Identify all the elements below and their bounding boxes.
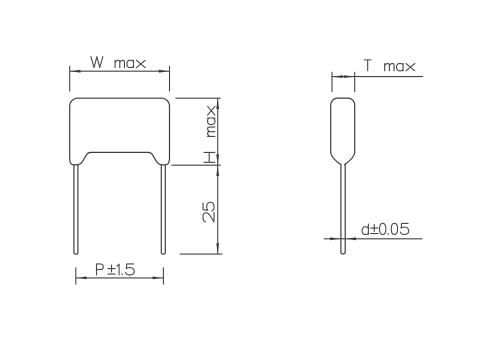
W dimension arrow left (70, 70, 81, 73)
P dimension extension line right (162, 267, 164, 284)
P dimension line (76, 277, 164, 279)
capacitor body (side view) (331, 98, 355, 165)
P dimension arrow right (153, 277, 164, 280)
25 dimension arrow top (216, 165, 219, 176)
right lead (161, 165, 165, 254)
T dimension extension line left (331, 72, 333, 92)
T dimension arrow right (344, 75, 355, 78)
25 dimension arrow bottom (216, 243, 219, 254)
left lead (74, 165, 78, 254)
label "T max" (364, 60, 414, 71)
T dimension line (332, 76, 423, 78)
P dimension arrow left (76, 277, 87, 280)
label "25" (rotated) (203, 202, 214, 222)
25 dimension extension line bottom (180, 253, 223, 255)
H dimension arrow top (216, 98, 219, 109)
H dimension extension line top (176, 97, 221, 99)
capacitor body (front view) (70, 98, 170, 165)
W dimension arrow right (159, 70, 170, 73)
label "P±1.5" (97, 264, 135, 275)
H dimension line (217, 98, 219, 165)
d dimension arrow right (345, 237, 356, 240)
label "d±0.05" (362, 223, 409, 234)
P dimension extension line left (75, 267, 77, 284)
d dimension line (324, 238, 423, 240)
H dimension extension line bottom (171, 164, 220, 166)
side view lead (341, 164, 345, 254)
W dimension line (70, 70, 170, 72)
label "H max" (rotated) (204, 106, 215, 162)
H dimension arrow bottom (216, 154, 219, 165)
T dimension extension line right (354, 72, 356, 92)
W dimension extension line left (69, 66, 71, 92)
T dimension arrow left (332, 75, 343, 78)
d dimension arrow left (330, 237, 341, 240)
label "W max" (91, 57, 145, 68)
25 dimension line (217, 165, 219, 254)
W dimension extension line right (169, 66, 171, 92)
